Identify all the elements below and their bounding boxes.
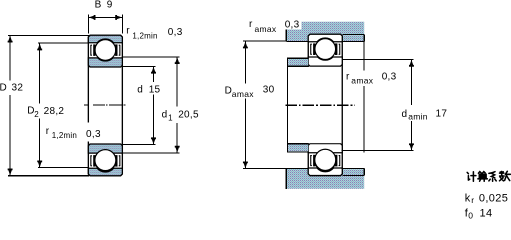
housing top band: [287, 22, 364, 35]
halo r_amax mid: [344, 71, 399, 87]
svg-text:d: d: [137, 85, 143, 96]
housing top left block: [287, 34, 308, 42]
dimension d1: extension lines: [122, 57, 179, 153]
housing bottom left block: [287, 169, 308, 176]
dimension D: extension lines: [8, 35, 89, 175]
dimension Damax: arrows: [243, 42, 248, 169]
halo d 15: [135, 82, 163, 95]
dimension damin: line: [410, 60, 412, 151]
svg-text:17: 17: [436, 108, 448, 119]
housing outline lines bottom: [286, 169, 364, 189]
bearing cross-section right view: [308, 34, 342, 175]
svg-text:14: 14: [480, 207, 493, 219]
dimension Damax: line: [244, 41, 246, 168]
shaft face line: [287, 58, 289, 152]
svg-text:0,3: 0,3: [285, 19, 300, 30]
dimension d: arrows: [151, 67, 156, 145]
halo r_amax top 0,3: [283, 18, 302, 30]
dimension damin: arrows: [409, 60, 414, 150]
housing outline lines top: [286, 22, 364, 42]
dimension d: extension lines: [122, 66, 155, 144]
halo D2 28,2: [26, 104, 65, 119]
dimension D: line: [9, 35, 11, 175]
dimension d1: line: [176, 57, 178, 153]
svg-text:r: r: [471, 195, 474, 205]
axis left view: [84, 104, 126, 106]
svg-text:1,2min: 1,2min: [52, 131, 77, 140]
dimension damin: extension lines: [342, 60, 414, 151]
chinese title 计算系数 (drawn strokes): [467, 171, 510, 181]
housing top right block: [342, 35, 364, 41]
dimension d: line: [153, 66, 155, 144]
dimension D: arrows: [8, 36, 13, 176]
svg-text:amax: amax: [232, 89, 254, 99]
char ji: [467, 172, 476, 181]
svg-text:B: B: [95, 0, 102, 11]
svg-text:r: r: [46, 126, 50, 137]
dimension D2: extension lines: [38, 43, 89, 168]
svg-text:2: 2: [34, 110, 39, 119]
shaft shoulder strip top: [288, 59, 308, 66]
lower ball override: [95, 150, 116, 171]
halo d1 20,5: [159, 107, 202, 124]
r_amax leader vertical: [363, 42, 365, 153]
svg-text:30: 30: [263, 85, 275, 96]
svg-text:r: r: [249, 19, 253, 30]
svg-text:28,2: 28,2: [44, 106, 65, 117]
svg-text:0,3: 0,3: [382, 71, 397, 82]
halo damin 17: [400, 105, 449, 121]
dimension Damax: extension lines: [243, 41, 286, 168]
housing bottom band: [287, 176, 364, 189]
shaft shoulder edges: [287, 58, 309, 152]
halo Damax 30: [221, 84, 276, 99]
svg-text:r: r: [126, 26, 130, 37]
svg-text:0,025: 0,025: [479, 193, 508, 205]
svg-text:9: 9: [107, 0, 113, 11]
svg-text:amax: amax: [351, 76, 373, 86]
char shu: [500, 171, 511, 181]
dimension B: line: [88, 16, 122, 18]
svg-text:k: k: [465, 193, 471, 205]
svg-text:1,2min: 1,2min: [132, 31, 157, 40]
dimension D2: line: [39, 43, 41, 168]
dimension B: arrows: [89, 15, 123, 20]
shaft shoulder strip bottom: [288, 145, 308, 152]
dimension d1: arrows: [175, 57, 180, 153]
svg-text:32: 32: [12, 83, 24, 94]
svg-text:0: 0: [468, 211, 473, 220]
svg-text:amin: amin: [408, 111, 428, 121]
shaft body (covers bearing left face line in bore): [288, 67, 341, 143]
bearing cross-section left view: [88, 35, 122, 175]
svg-text:15: 15: [149, 85, 161, 96]
axis right view: [285, 104, 355, 106]
svg-text:1: 1: [168, 113, 173, 122]
svg-text:20,5: 20,5: [178, 110, 199, 121]
svg-text:0,3: 0,3: [168, 27, 183, 38]
svg-text:d: d: [402, 109, 408, 120]
lower ball override right: [315, 149, 336, 170]
char suan: [478, 172, 487, 182]
svg-text:d: d: [162, 109, 168, 120]
svg-text:amax: amax: [255, 24, 277, 34]
halo D 32: [0, 81, 24, 96]
svg-text:0,3: 0,3: [86, 129, 101, 140]
halo r bottom 0,3: [84, 123, 103, 142]
svg-text:r: r: [346, 71, 350, 82]
char xi: [489, 172, 496, 182]
dimension D2: arrows: [37, 44, 42, 168]
dimension B: extension lines: [88, 15, 122, 34]
housing bottom right block: [342, 169, 364, 175]
svg-text:D: D: [0, 83, 7, 94]
